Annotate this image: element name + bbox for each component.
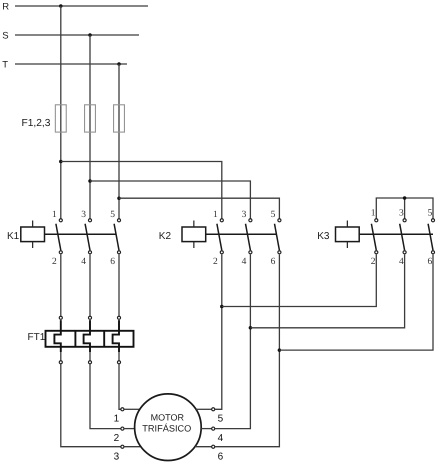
- svg-text:5: 5: [110, 210, 115, 220]
- wire: [60, 6, 62, 219]
- heater element 2: [84, 320, 90, 352]
- wire: [61, 162, 222, 219]
- wire: [60, 352, 62, 361]
- wire: [118, 320, 120, 331]
- svg-text:4: 4: [399, 257, 404, 267]
- motor M1: [135, 394, 202, 461]
- wire: [250, 254, 404, 327]
- svg-text:3: 3: [81, 210, 86, 220]
- svg-text:2: 2: [114, 433, 120, 444]
- junction dot: [249, 326, 253, 330]
- wire: [195, 446, 212, 448]
- wire: [215, 254, 251, 428]
- junction dot: [59, 4, 63, 8]
- wire: [118, 254, 120, 316]
- contact K2 pole 1-2: [220, 219, 223, 222]
- svg-text:5: 5: [427, 208, 432, 218]
- svg-text:1: 1: [371, 208, 376, 218]
- svg-text:1: 1: [52, 210, 57, 220]
- wire: [215, 254, 280, 446]
- wire: [15, 5, 148, 7]
- contact K1 pole 1-2: [59, 219, 62, 222]
- contact K2 pole 5-6: [278, 219, 281, 222]
- wire: [90, 364, 121, 429]
- wire coil stub top: [193, 221, 195, 228]
- wire linkage K1: [45, 233, 117, 235]
- svg-text:1: 1: [213, 210, 218, 220]
- wire: [196, 408, 212, 410]
- contact K1 pole 5-6: [117, 219, 120, 222]
- divider: [74, 331, 76, 347]
- terminal motor 4: [212, 427, 215, 430]
- wire: [201, 428, 211, 430]
- wire: [215, 254, 222, 409]
- wire: [90, 181, 250, 219]
- terminal motor 3: [121, 445, 124, 448]
- svg-text:2: 2: [52, 257, 57, 267]
- heater element 3: [113, 320, 119, 352]
- wire: [124, 446, 141, 448]
- svg-text:3: 3: [114, 452, 120, 463]
- svg-text:3: 3: [399, 208, 404, 218]
- wire: [222, 254, 376, 306]
- wire K3 star bus: [376, 198, 433, 219]
- wire: [118, 352, 120, 361]
- junction dot: [117, 196, 121, 200]
- junction dot: [220, 305, 224, 309]
- svg-text:4: 4: [218, 433, 224, 444]
- wire: [124, 408, 140, 410]
- divider: [103, 331, 105, 347]
- svg-text:K1: K1: [7, 231, 20, 242]
- svg-text:6: 6: [110, 257, 115, 267]
- svg-text:6: 6: [427, 257, 432, 267]
- terminal motor 2: [121, 427, 124, 430]
- svg-text:R: R: [2, 2, 9, 13]
- terminal: [88, 361, 91, 364]
- wire: [404, 198, 406, 219]
- svg-text:4: 4: [242, 257, 247, 267]
- wire: [89, 320, 91, 331]
- terminal: [88, 316, 91, 319]
- fuse F1: [55, 105, 66, 132]
- heater element 1: [54, 320, 60, 352]
- terminal: [117, 361, 120, 364]
- junction dot: [117, 62, 121, 66]
- wire linkage K3: [359, 233, 433, 235]
- svg-text:F1,2,3: F1,2,3: [22, 118, 51, 129]
- wire coil stub top: [32, 221, 34, 228]
- wire: [89, 35, 91, 219]
- svg-text:MOTOR: MOTOR: [151, 412, 185, 422]
- fuse F3: [114, 105, 125, 132]
- junction dot: [403, 196, 407, 200]
- contact K3 pole 3-4: [403, 219, 406, 222]
- wire: [89, 254, 91, 316]
- contact K1 pole 3-4: [88, 219, 91, 222]
- terminal motor 6: [212, 445, 215, 448]
- svg-text:1: 1: [114, 413, 120, 424]
- svg-text:2: 2: [213, 257, 218, 267]
- wire coil stub bottom: [32, 242, 34, 248]
- svg-text:2: 2: [371, 257, 376, 267]
- wire: [89, 352, 91, 361]
- wire: [60, 320, 62, 331]
- terminal: [59, 361, 62, 364]
- wire: [61, 364, 121, 447]
- wire: [15, 63, 127, 65]
- junction dot: [88, 33, 92, 37]
- wire coil stub bottom: [193, 242, 195, 248]
- svg-text:4: 4: [81, 257, 86, 267]
- svg-text:S: S: [2, 31, 8, 42]
- contact K3 pole 1-2: [375, 219, 378, 222]
- terminal motor 5: [212, 408, 215, 411]
- wire: [124, 428, 135, 430]
- junction dot: [278, 348, 282, 352]
- svg-text:T: T: [2, 60, 8, 71]
- wire: [60, 254, 62, 316]
- wire linkage K2: [206, 233, 277, 235]
- svg-text:FT1: FT1: [28, 332, 46, 343]
- fuse F2: [85, 105, 96, 132]
- wire: [279, 254, 433, 350]
- terminal motor 1: [121, 408, 124, 411]
- svg-text:TRIFÁSICO: TRIFÁSICO: [142, 423, 191, 433]
- overload relay FT1 box: [46, 331, 134, 347]
- contact K3 pole 5-6: [431, 219, 434, 222]
- junction dot: [59, 160, 63, 164]
- terminal: [117, 316, 120, 319]
- junction dot: [88, 179, 92, 183]
- svg-text:6: 6: [218, 452, 224, 463]
- wire: [119, 198, 279, 218]
- contact K2 pole 3-4: [249, 219, 252, 222]
- svg-text:K3: K3: [317, 231, 330, 242]
- wire: [15, 34, 139, 36]
- svg-text:3: 3: [242, 210, 247, 220]
- terminal: [59, 316, 62, 319]
- wire: [118, 64, 120, 219]
- svg-text:6: 6: [271, 257, 276, 267]
- svg-text:5: 5: [271, 210, 276, 220]
- svg-text:5: 5: [218, 413, 224, 424]
- svg-text:K2: K2: [159, 231, 172, 242]
- wire coil stub bottom: [346, 242, 348, 248]
- wire: [119, 364, 121, 409]
- wire coil stub top: [346, 221, 348, 228]
